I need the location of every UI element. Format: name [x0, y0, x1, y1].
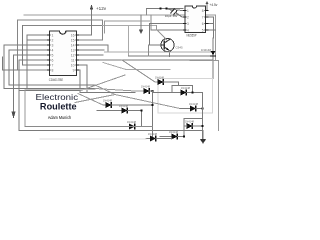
svg-text:1: 1	[52, 33, 54, 37]
capacitor C1 10uF	[147, 8, 184, 10]
wire top-left wrap (4017 pin15 to pin8)	[18, 20, 103, 70]
transistor Q1	[161, 38, 174, 51]
U2 pin nubs	[48, 35, 79, 70]
U2 pin leads right	[77, 45, 214, 93]
wire rail y15	[24, 15, 216, 61]
IC U1 NE555 body	[185, 6, 206, 33]
svg-text:Adam Munich: Adam Munich	[48, 115, 72, 120]
svg-text:12: 12	[71, 53, 75, 57]
svg-text:+4.5v: +4.5v	[210, 3, 218, 7]
IC U2 CD4017 body	[50, 31, 77, 76]
wire faint box B1	[158, 79, 213, 114]
title box	[24, 90, 26, 127]
svg-text:+12v: +12v	[96, 6, 107, 11]
U1 pin nubs	[184, 11, 209, 31]
svg-text:2: 2	[187, 15, 189, 19]
wire diagonal dg3 pin to D3	[122, 60, 158, 82]
wire diagonal dg2a	[75, 95, 180, 109]
wire diagonal dg6 to D1	[95, 89, 144, 92]
+12v supply arrow	[77, 9, 92, 35]
left down arrow	[12, 112, 16, 120]
wire y69.5 gray run	[103, 63, 170, 70]
svg-text:8: 8	[202, 9, 204, 13]
svg-text:9: 9	[73, 68, 75, 72]
wire Q1 collector	[157, 26, 167, 40]
wire diagonal dg1	[80, 75, 125, 91]
svg-text:3: 3	[187, 22, 189, 26]
svg-text:6: 6	[202, 22, 204, 26]
svg-text:16: 16	[71, 33, 75, 37]
svg-text:1N4148: 1N4148	[181, 86, 191, 90]
svg-text:6: 6	[52, 58, 54, 62]
wire diagonal dg2b from x9 ladder	[95, 85, 115, 95]
svg-text:14: 14	[71, 43, 75, 47]
svg-text:1N4148: 1N4148	[185, 120, 195, 124]
LED D7	[160, 136, 172, 138]
wire gray rail y25.5	[23, 25, 103, 27]
wire Q1 emitter down	[168, 50, 170, 56]
supply arrow down	[140, 15, 142, 30]
svg-text:7: 7	[202, 15, 204, 19]
svg-text:NE555P: NE555P	[187, 33, 198, 37]
svg-text:13: 13	[71, 48, 75, 52]
svg-text:C945: C945	[176, 46, 184, 50]
svg-text:5: 5	[202, 28, 204, 32]
svg-text:11: 11	[71, 58, 75, 62]
LED D2	[103, 104, 106, 106]
wire D4 loop	[172, 86, 193, 93]
svg-text:Roulette: Roulette	[40, 102, 77, 112]
diode D11 1N4148 vertical	[212, 38, 214, 61]
wire diagonal dg4 to D2	[78, 94, 103, 106]
svg-text:10µF 16v: 10µF 16v	[165, 14, 178, 18]
wire D6 loop	[184, 119, 203, 127]
svg-text:1N4148: 1N4148	[201, 48, 212, 52]
wire far-left spur	[3, 57, 18, 70]
wire right nested box	[190, 61, 219, 131]
LED D4	[153, 92, 182, 94]
svg-text:10: 10	[71, 63, 75, 67]
svg-text:1N4148: 1N4148	[189, 102, 199, 106]
wire faint row	[40, 138, 146, 140]
svg-text:4: 4	[187, 28, 189, 32]
LED D1	[144, 89, 149, 94]
node cap rail dots	[160, 8, 162, 10]
ground	[202, 131, 205, 140]
LED D9	[130, 124, 135, 129]
LED D3	[158, 80, 163, 85]
svg-text:15: 15	[71, 38, 75, 42]
svg-text:1N4148: 1N4148	[141, 85, 151, 89]
svg-text:CD4017BE: CD4017BE	[49, 78, 64, 82]
wire cathode vertical	[202, 93, 204, 140]
+4.5v supply arrow	[206, 4, 208, 9]
svg-text:7: 7	[52, 63, 54, 67]
svg-text:3: 3	[52, 43, 54, 47]
svg-text:1N4148: 1N4148	[119, 104, 129, 108]
U2 pin leads left	[4, 26, 95, 131]
wire dark rail y56.5	[129, 55, 214, 57]
LED D8	[97, 110, 122, 112]
wire bus y92.5	[80, 92, 135, 94]
svg-text:1N4148: 1N4148	[103, 99, 113, 103]
wire gray corner x104.5	[105, 21, 150, 33]
LED D5	[180, 108, 191, 110]
wire D1 node down	[152, 91, 154, 139]
wire bottom bus	[19, 130, 203, 132]
svg-text:2: 2	[52, 38, 54, 42]
U2 pin numbers	[52, 33, 75, 72]
svg-text:8: 8	[52, 68, 54, 72]
wire gray rail y53	[105, 51, 216, 53]
svg-text:1N4148: 1N4148	[148, 132, 158, 136]
svg-text:1N4148: 1N4148	[155, 76, 165, 80]
U1 pin leads	[150, 8, 216, 45]
svg-text:1: 1	[187, 9, 189, 13]
wire rail y20 corner	[147, 9, 183, 31]
LED D6	[187, 124, 192, 129]
svg-text:5: 5	[52, 53, 54, 57]
svg-text:1N4148: 1N4148	[127, 120, 137, 124]
LED D10	[146, 138, 151, 140]
U1 pin numbers	[187, 9, 204, 33]
svg-text:4: 4	[52, 48, 54, 52]
